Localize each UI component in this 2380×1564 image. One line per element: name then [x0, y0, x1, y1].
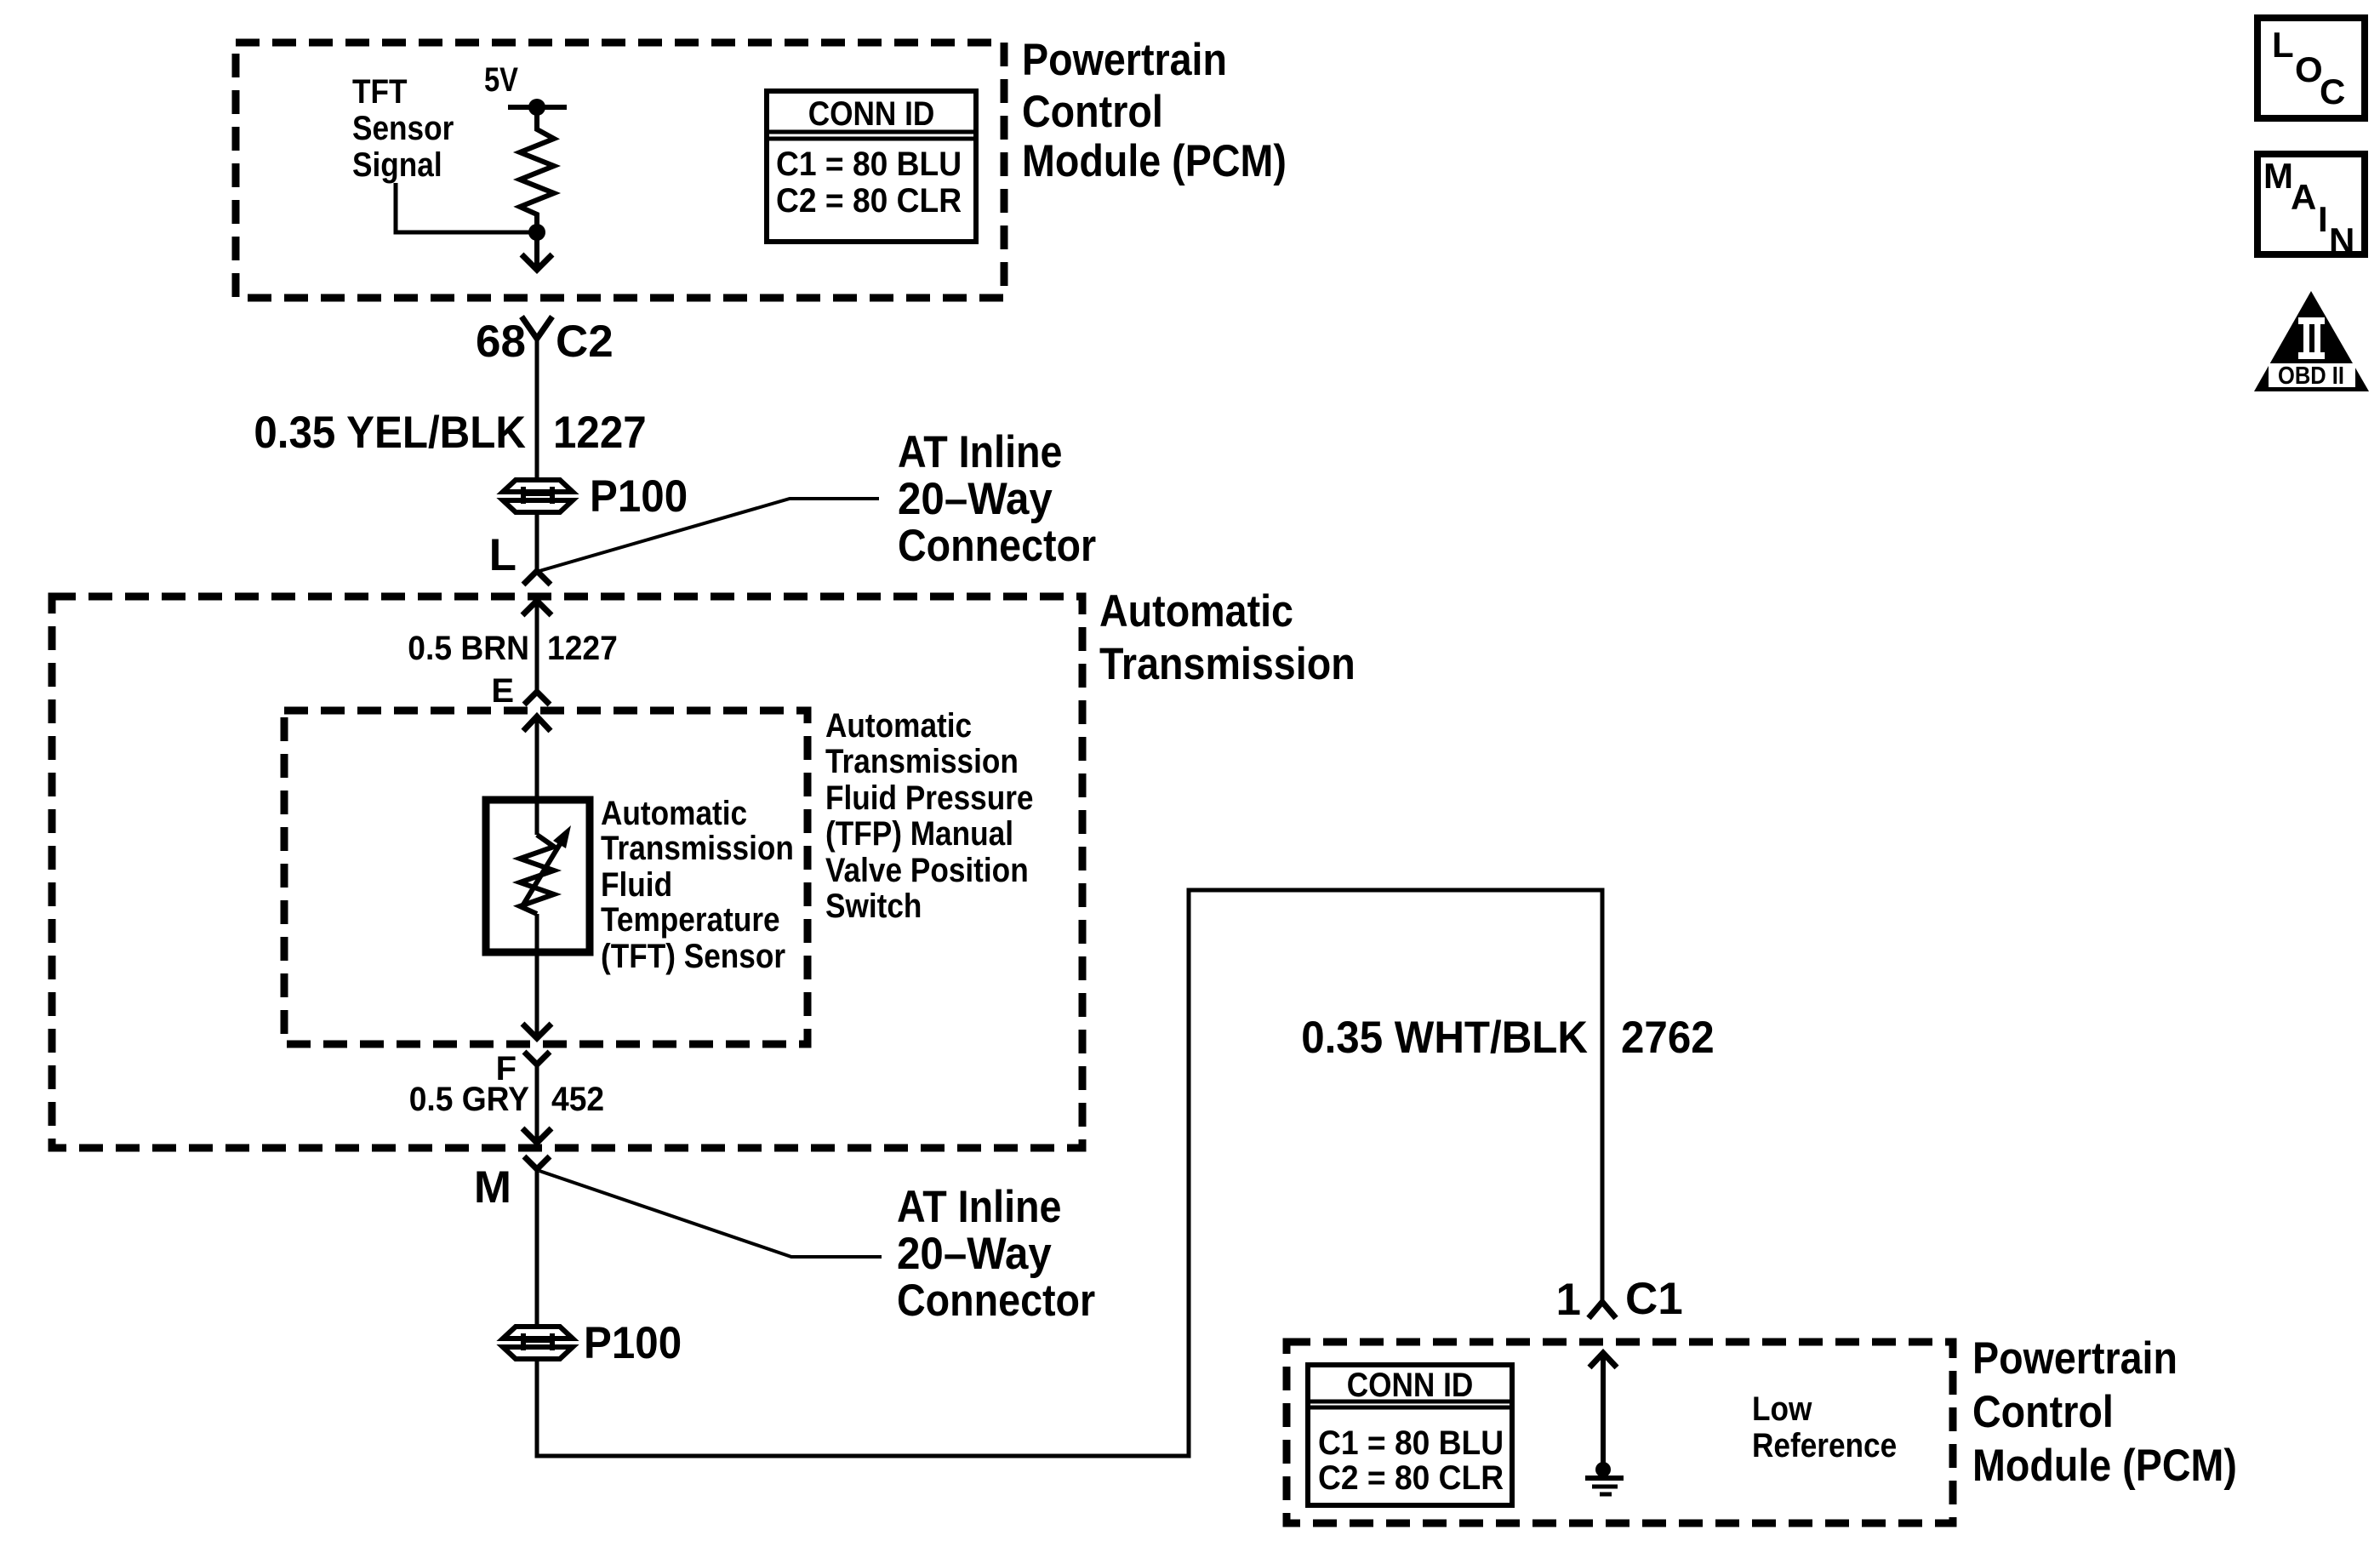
AT Inline 20-Way Connector label (bottom) [897, 1182, 1095, 1326]
svg-text:Control: Control [1022, 87, 1163, 137]
PCM module box U1 (Powertrain Control Module, top) [236, 43, 1004, 298]
svg-text:452: 452 [551, 1081, 604, 1118]
svg-text:Low: Low [1752, 1390, 1812, 1428]
pin L chevron [523, 571, 551, 585]
svg-text:Temperature: Temperature [601, 901, 780, 939]
inline connector P100 (top) [503, 480, 573, 512]
svg-text:AT Inline: AT Inline [898, 427, 1063, 477]
PCM title (bottom) [1972, 1333, 2237, 1491]
svg-text:2762: 2762 [1621, 1013, 1715, 1063]
svg-text:L: L [489, 530, 517, 580]
TFT sensor label [601, 795, 794, 975]
up arrow into TFP box at pin E [523, 716, 551, 731]
callout leader (bottom) [539, 1171, 882, 1257]
svg-text:(TFP) Manual: (TFP) Manual [825, 815, 1013, 853]
svg-text:Sensor: Sensor [352, 110, 454, 147]
thermistor RT1 (TFT sensor element) [520, 835, 554, 914]
svg-text:C2 = 80 CLR: C2 = 80 CLR [776, 182, 962, 220]
svg-text:Fluid: Fluid [601, 866, 672, 904]
svg-text:Transmission: Transmission [1099, 639, 1356, 689]
svg-text:Control: Control [1972, 1387, 2114, 1437]
svg-text:5V: 5V [484, 61, 518, 99]
down arrow at TFP box bottom [522, 1024, 551, 1038]
svg-text:C2 = 80 CLR: C2 = 80 CLR [1318, 1459, 1504, 1497]
wire 0.35 YEL/BLK (PCM to P100) [535, 339, 539, 479]
svg-text:Valve Position: Valve Position [825, 852, 1029, 889]
AT Inline 20-Way Connector label (top) [898, 427, 1096, 571]
pin 68 C2 chevron [522, 317, 552, 339]
junction dot A (5V node) [528, 99, 545, 116]
wire below TFT sensor [535, 914, 539, 1037]
svg-text:Reference: Reference [1752, 1427, 1897, 1464]
svg-text:Connector: Connector [897, 1276, 1095, 1326]
Low Reference label [1752, 1390, 1897, 1464]
wire E to TFT sensor [535, 716, 539, 835]
svg-text:Fluid Pressure: Fluid Pressure [825, 779, 1034, 817]
5V node wire [508, 105, 567, 110]
PCM module box U2 (Powertrain Control Module, bottom) [1287, 1342, 1953, 1523]
junction dot C (ground node) [1595, 1462, 1611, 1477]
junction dot B (signal node) [528, 224, 545, 241]
thermistor arrow [521, 825, 571, 909]
CONN ID table (top) [767, 91, 976, 242]
svg-text:O: O [2295, 49, 2323, 89]
svg-text:0.35 YEL/BLK: 0.35 YEL/BLK [254, 408, 526, 458]
TFT sensor box [486, 800, 590, 952]
svg-text:M: M [474, 1162, 511, 1213]
svg-text:Connector: Connector [898, 521, 1096, 571]
svg-text:Transmission: Transmission [601, 830, 794, 867]
svg-text:0.5 BRN: 0.5 BRN [408, 630, 529, 667]
svg-text:Module (PCM): Module (PCM) [1972, 1441, 2237, 1491]
svg-text:CONN ID: CONN ID [808, 95, 935, 133]
MAIN legend box [2257, 154, 2365, 260]
svg-text:Powertrain: Powertrain [1972, 1333, 2177, 1384]
svg-text:1227: 1227 [553, 408, 647, 458]
Automatic Transmission label [1099, 586, 1356, 689]
wire label 0.5 GRY 452 [409, 1081, 604, 1118]
svg-text:E: E [491, 672, 514, 710]
svg-text:L: L [2272, 25, 2294, 65]
wire label 0.5 BRN 1227 [408, 630, 618, 667]
pin M chevron [524, 1156, 550, 1169]
wire label 0.35 YEL/BLK 1227 [254, 408, 646, 458]
wire 0.35 WHT/BLK loop (P100 to PCM pin 1 C1) [537, 890, 1602, 1456]
inline connector P100 (bottom) [503, 1327, 573, 1359]
svg-text:Switch: Switch [825, 888, 922, 925]
wire with down arrow inside PCM [522, 232, 552, 270]
svg-text:Automatic: Automatic [825, 707, 972, 745]
resistor R1 (PCM pull-up) [520, 107, 554, 232]
svg-text:C1 = 80 BLU: C1 = 80 BLU [1318, 1424, 1504, 1462]
LOC legend box [2257, 18, 2365, 118]
svg-text:1: 1 [1556, 1275, 1581, 1325]
svg-text:Module (PCM): Module (PCM) [1022, 136, 1287, 186]
svg-text:C: C [2320, 71, 2345, 111]
svg-text:OBD II: OBD II [2278, 362, 2344, 390]
svg-text:Automatic: Automatic [601, 795, 747, 832]
svg-text:TFT: TFT [352, 73, 408, 111]
PCM title (top) [1022, 35, 1287, 186]
svg-text:C1 = 80 BLU: C1 = 80 BLU [776, 146, 962, 183]
svg-text:20–Way: 20–Way [898, 474, 1053, 524]
down arrow at AT box bottom [522, 1128, 551, 1143]
low reference wire with up arrow [1590, 1353, 1617, 1470]
svg-text:M: M [2263, 156, 2293, 196]
wire label 0.35 WHT/BLK 2762 [1301, 1013, 1715, 1063]
svg-text:1227: 1227 [547, 630, 618, 667]
wire 0.5 BRN (L to E) [535, 601, 539, 691]
TFT Sensor Signal label [352, 73, 454, 184]
TFP manual valve position switch box [284, 711, 808, 1044]
callout leader (top) [539, 499, 879, 571]
svg-text:A: A [2291, 177, 2316, 217]
pin E chevron [524, 692, 550, 705]
pin 1 C1 chevron [1589, 1302, 1616, 1318]
svg-text:Transmission: Transmission [825, 743, 1019, 780]
up arrow into AT box at pin L [522, 601, 551, 615]
svg-text:C1: C1 [1625, 1274, 1683, 1324]
svg-text:Powertrain: Powertrain [1022, 35, 1227, 85]
svg-text:(TFT) Sensor: (TFT) Sensor [601, 938, 785, 975]
Automatic Transmission box [52, 596, 1082, 1148]
svg-text:C2: C2 [556, 317, 614, 367]
ground symbol G1 [1585, 1478, 1624, 1494]
svg-text:N: N [2329, 220, 2354, 260]
svg-text:68: 68 [476, 317, 526, 367]
wire M to P100 (bottom) [535, 1169, 539, 1326]
svg-text:AT Inline: AT Inline [897, 1182, 1062, 1232]
pin F chevron [524, 1052, 550, 1065]
OBD II symbol [2254, 291, 2369, 391]
CONN ID table (bottom) [1308, 1365, 1512, 1505]
svg-text:Signal: Signal [352, 146, 442, 184]
svg-text:P100: P100 [590, 471, 688, 522]
svg-text:P100: P100 [584, 1318, 682, 1368]
wire 0.5 GRY (F to M) [535, 1065, 539, 1143]
svg-text:Automatic: Automatic [1099, 586, 1293, 636]
svg-text:I: I [2318, 199, 2328, 239]
TFT sensor signal wire (internal) [396, 183, 537, 232]
svg-text:20–Way: 20–Way [897, 1229, 1052, 1279]
wire P100 to pin L [535, 513, 539, 570]
svg-text:CONN ID: CONN ID [1347, 1367, 1474, 1404]
TFP switch label [825, 707, 1034, 925]
svg-text:0.5 GRY: 0.5 GRY [409, 1081, 530, 1118]
svg-text:0.35 WHT/BLK: 0.35 WHT/BLK [1301, 1013, 1588, 1063]
